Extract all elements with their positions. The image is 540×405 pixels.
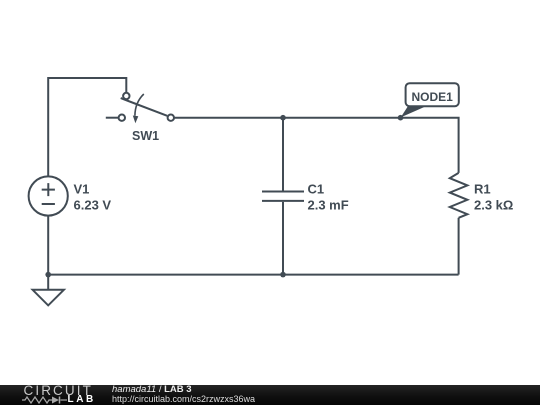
junction capacitor bottom (280, 272, 286, 278)
svg-text:C1: C1 (308, 181, 325, 196)
svg-text:V1: V1 (74, 181, 90, 196)
wire capacitor branch top (282, 118, 284, 191)
svg-text:2.3 mF: 2.3 mF (308, 197, 349, 212)
switch SW1 left throw terminal (119, 115, 125, 121)
switch SW1 top throw terminal (123, 93, 129, 99)
svg-text:6.23 V: 6.23 V (74, 197, 112, 212)
svg-text:NODE1: NODE1 (412, 90, 454, 104)
voltage source V1 (29, 176, 68, 215)
V1 minus sign (42, 203, 55, 205)
footer bar (0, 385, 540, 405)
footer title (112, 384, 192, 395)
ground (33, 290, 64, 306)
wire V1 bottom to ground (47, 216, 49, 290)
svg-text:2.3 kΩ: 2.3 kΩ (474, 197, 513, 212)
wire bottom rail (48, 274, 458, 276)
node NODE1 junction dot (398, 115, 404, 121)
wire resistor bottom (458, 218, 460, 275)
switch SW1 left throw stub (106, 117, 119, 119)
node NODE1 callout box (406, 83, 459, 106)
resistor R1 (450, 173, 468, 218)
wire V1 top to switch (48, 78, 126, 176)
wire top rail (174, 118, 458, 173)
switch SW1 pole terminal (168, 115, 174, 121)
switch SW1 blade (121, 98, 168, 116)
junction capacitor top (280, 115, 286, 121)
V1 plus sign (42, 183, 55, 196)
CircuitLab logo squiggle (22, 395, 94, 405)
CircuitLab logo text CIRCUIT (24, 383, 93, 398)
CircuitLab logo text LAB (68, 394, 96, 405)
svg-text:R1: R1 (474, 181, 491, 196)
svg-text:SW1: SW1 (132, 129, 159, 143)
junction ground node (45, 272, 51, 278)
wire capacitor branch bottom (282, 202, 284, 275)
capacitor C1 (262, 192, 304, 201)
switch SW1 actuation arrow (135, 94, 144, 116)
node NODE1 callout tail (401, 105, 426, 118)
footer url (112, 394, 255, 404)
